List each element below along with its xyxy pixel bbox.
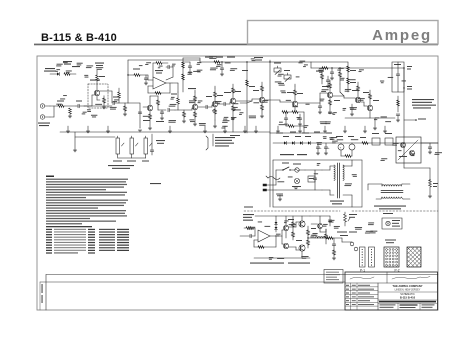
bottom cell text [380, 304, 396, 305]
label [274, 63, 281, 64]
line cord [268, 177, 280, 180]
ground [69, 114, 71, 116]
section divider [244, 210, 340, 212]
capacitor C6 [167, 108, 169, 112]
label [244, 207, 253, 208]
wire [182, 58, 184, 92]
resistor R24 [282, 111, 288, 114]
label [337, 232, 347, 233]
labels tone values [304, 125, 308, 126]
capacitor C11 [330, 71, 334, 73]
label rect row [276, 133, 283, 134]
resistor R49 [321, 74, 324, 79]
wire [118, 88, 120, 92]
ground [160, 117, 164, 119]
wire [305, 169, 322, 171]
labels regulator values [398, 150, 402, 151]
transistor Q16 output [299, 245, 305, 251]
label 5ohm [383, 239, 385, 241]
capacitor C26 [167, 65, 169, 69]
resistor R41 [292, 232, 295, 237]
signature cell divider [386, 272, 388, 283]
wire [254, 228, 256, 236]
diode CR2 [284, 141, 286, 144]
divider [378, 291, 438, 293]
capacitor C1 [77, 104, 79, 108]
bottom cells divider [397, 303, 399, 310]
label [433, 183, 438, 184]
ground [316, 152, 320, 154]
node [246, 61, 247, 62]
box component [372, 138, 380, 145]
wire [265, 99, 280, 101]
wire [240, 235, 250, 237]
wire [289, 226, 296, 228]
transformer T1 primary winding [334, 165, 335, 167]
capacitor C2 [112, 101, 114, 105]
wire [221, 62, 223, 68]
wire [200, 61, 311, 63]
wire [118, 102, 128, 104]
resistor R16 [214, 61, 220, 64]
capacitor C5 [160, 111, 164, 113]
resistor R50 [339, 72, 342, 77]
wire [301, 251, 303, 258]
resistor R33 [369, 94, 372, 99]
resistor R31 [347, 78, 350, 84]
resistor R45 zobel [333, 250, 336, 255]
label [224, 92, 231, 93]
label [399, 156, 407, 157]
wire [198, 106, 206, 108]
ground [73, 149, 77, 151]
wire [275, 222, 277, 232]
box component [385, 138, 393, 145]
labels stage2 top [188, 72, 193, 73]
label notes [412, 99, 434, 100]
resistor R29 [329, 100, 332, 105]
wire [292, 216, 294, 222]
wire [281, 230, 283, 236]
wire loop [392, 62, 404, 92]
label top [63, 61, 72, 62]
ground ticks row [67, 126, 69, 131]
ground [428, 151, 432, 153]
node [269, 61, 270, 62]
strip top rule [46, 274, 438, 276]
wire [310, 62, 312, 68]
node [339, 67, 340, 68]
ground [330, 77, 334, 79]
notes paragraph text [46, 179, 128, 180]
resistor R19 [232, 88, 235, 93]
resistor R39 [258, 246, 264, 249]
wire [285, 216, 287, 225]
label [72, 66, 80, 67]
resistor R9 [155, 92, 161, 95]
wire [148, 79, 153, 81]
wire [127, 60, 129, 103]
label [143, 120, 150, 121]
resistor R44 [327, 237, 333, 240]
wire [191, 108, 193, 110]
winding upper [382, 185, 384, 186]
diagonal [398, 140, 418, 160]
label [394, 64, 401, 65]
capacitor C28 [298, 117, 302, 119]
capacitor C12 [318, 105, 322, 107]
capacitor C4 [138, 111, 142, 113]
label controls note [108, 165, 134, 166]
wire [267, 184, 277, 186]
wire [194, 90, 196, 92]
ground [213, 125, 217, 127]
resistor R12 [177, 98, 180, 104]
labels rectifier values [331, 137, 337, 138]
plug prong [263, 184, 267, 186]
op-amp U1 [153, 77, 166, 89]
labels driver lower values [343, 108, 347, 109]
wire [269, 60, 271, 133]
wire [322, 189, 330, 191]
wire [64, 105, 76, 107]
strip second rule [40, 281, 345, 283]
resistor R42 emitter [307, 230, 310, 235]
label [150, 183, 161, 184]
wire [211, 105, 213, 107]
wire [183, 57, 200, 59]
wire [214, 120, 216, 126]
transistor Q17 [318, 224, 323, 229]
transistor Q12 [410, 151, 415, 156]
resistor R27 [322, 67, 328, 70]
wire [70, 73, 76, 75]
signature row divider [345, 282, 438, 284]
wire [50, 105, 58, 107]
resistor R51 [288, 125, 294, 128]
wire [150, 95, 158, 97]
ground [148, 127, 152, 129]
wire [84, 105, 92, 107]
label INPUT [38, 123, 50, 124]
label [372, 133, 379, 134]
wire [177, 92, 179, 98]
wire [322, 169, 330, 171]
wire bottom rail [60, 131, 270, 133]
resistor R14 [194, 96, 197, 101]
pot VR4 [130, 138, 134, 154]
wire [139, 103, 141, 128]
resistor R43 emitter [307, 240, 310, 245]
label C1 [76, 101, 82, 102]
svg-text:B-115 & B-410: B-115 & B-410 [41, 32, 117, 44]
parts list rows [46, 229, 52, 230]
signature squiggle [392, 277, 430, 280]
label PA parts [288, 219, 294, 220]
label [292, 186, 301, 187]
resistor R48 [156, 62, 162, 65]
wire [183, 61, 190, 63]
wire [343, 194, 352, 196]
capacitor C21 [428, 146, 432, 148]
strip left box [45, 275, 47, 311]
capacitor C27 [326, 79, 330, 81]
resistor R30 [347, 66, 350, 72]
label input [243, 214, 254, 215]
transistor Q9 [355, 97, 360, 102]
svg-text:LINDEN, NEW JERSEY: LINDEN, NEW JERSEY [395, 288, 421, 291]
wire [100, 90, 112, 92]
wire rail bottom [254, 257, 310, 259]
ground [102, 106, 106, 108]
divider [378, 299, 438, 301]
transistor Q14 driver [283, 243, 288, 248]
label [242, 70, 248, 71]
wire [276, 169, 283, 171]
labels bias values [370, 231, 377, 232]
jack J1 [40, 104, 44, 108]
label text [254, 57, 263, 58]
label [188, 88, 196, 89]
revision table entries [346, 285, 349, 286]
parts list header [46, 226, 92, 227]
title block outer [345, 272, 438, 310]
resistor R35 [345, 155, 351, 158]
node [403, 67, 404, 68]
switch SW1 [283, 167, 289, 170]
label [133, 69, 140, 70]
plug prong [263, 189, 267, 191]
pilot lamp [294, 178, 299, 183]
resistor R7 [124, 106, 127, 111]
diode CR3 [292, 141, 294, 144]
notes header [46, 176, 54, 178]
capacitor C15 [396, 113, 400, 115]
diode CR6 [275, 222, 278, 224]
transistor Q5 [230, 98, 235, 103]
fuse F1 [295, 168, 299, 172]
resistor R23 [261, 105, 264, 110]
node output [307, 237, 308, 238]
shield box stage 1 [88, 84, 108, 108]
pot VR5 [144, 138, 148, 154]
resistor R3 [69, 108, 72, 114]
ground [144, 82, 148, 84]
wire [285, 231, 287, 238]
capacitor C25 [188, 65, 192, 67]
Ampeg logo box [248, 21, 439, 45]
ground [220, 73, 224, 75]
capacitor C13 [350, 107, 354, 109]
transistor Q10 [367, 105, 372, 110]
bias trimmer VR6 [344, 214, 347, 222]
resistor R52 [325, 234, 328, 239]
wire [311, 223, 318, 225]
speaker fuse loop [382, 218, 402, 229]
ground [298, 123, 302, 125]
capacitor C8 [205, 105, 207, 109]
label T1 [330, 201, 344, 202]
label [206, 96, 212, 97]
wire [286, 125, 288, 127]
wire [275, 216, 277, 222]
transistor Q13 driver [283, 225, 288, 230]
ground [328, 111, 332, 113]
capacitor C22 [313, 177, 317, 179]
signal path wire [84, 105, 112, 107]
core lines [381, 190, 403, 192]
form number vertical [42, 284, 43, 293]
divider [378, 302, 438, 304]
wire [199, 60, 201, 62]
wire [218, 103, 224, 105]
transformer core [337, 163, 339, 198]
revision table rows [345, 286, 378, 288]
section divider [352, 210, 438, 212]
wire [402, 183, 410, 185]
wire rail [273, 142, 438, 144]
resistor R40 [292, 222, 295, 227]
capacitor C17 electrolytic [316, 146, 320, 148]
wire [298, 102, 320, 104]
label VOLUME [113, 161, 122, 162]
resistor R32 [357, 86, 360, 91]
wire [289, 246, 296, 248]
regulator box [396, 137, 421, 163]
resistor R38 [246, 227, 252, 230]
resistor R36 [362, 142, 368, 145]
resistor R47 [182, 74, 185, 80]
label BASS [142, 161, 149, 162]
ground [396, 119, 400, 121]
wire rail [310, 215, 330, 217]
transistor Q1 [94, 90, 99, 95]
capacitor C10 [284, 117, 288, 119]
ground [188, 71, 192, 73]
capacitor C18 electrolytic [324, 146, 328, 148]
label [95, 63, 104, 64]
mains enclosure [273, 159, 362, 161]
wire [397, 96, 399, 112]
op-amp U2 [258, 230, 270, 242]
pot VR3 [116, 138, 120, 154]
ground [182, 120, 186, 122]
wire [143, 106, 147, 108]
label [171, 94, 177, 95]
wire [96, 70, 98, 75]
label rail [205, 57, 213, 58]
ground [284, 123, 288, 125]
ground [260, 115, 264, 117]
lamp I1 [386, 221, 390, 225]
wire [172, 82, 178, 84]
revision table right edge [377, 283, 379, 310]
resistor R20 [232, 106, 235, 111]
transformer T1 secondary winding [343, 165, 344, 167]
capacitor C7 [220, 67, 224, 69]
resistor R6 [118, 92, 121, 98]
speaker grid B-410 [384, 247, 399, 267]
capacitor C3 [144, 77, 148, 79]
label [418, 119, 426, 120]
diode CR1 [57, 72, 59, 75]
node [221, 61, 222, 62]
label stage1 [90, 80, 100, 81]
label [253, 90, 259, 91]
wire [270, 132, 330, 134]
capacitor C14 [396, 73, 400, 75]
wire [96, 96, 98, 100]
transistor Q4 [212, 101, 217, 106]
wire [128, 74, 134, 76]
label [383, 213, 393, 214]
resistor R1 [64, 73, 70, 76]
label SPKR note [385, 240, 396, 241]
transistor Q11 [401, 143, 406, 148]
wire [118, 157, 146, 159]
capacitor C29 [328, 219, 332, 221]
resistor R10 [149, 114, 152, 119]
wire [333, 95, 344, 97]
wire rail [311, 67, 404, 69]
wire [117, 154, 119, 158]
label TREBLE [127, 161, 136, 162]
label transformer note [374, 206, 406, 207]
ground [231, 117, 235, 119]
wire [246, 62, 248, 133]
labels power amp values [276, 234, 281, 235]
label R2 [57, 101, 64, 102]
label POWER SUPPLY [280, 154, 294, 155]
connector strip [360, 247, 366, 267]
wire [269, 133, 271, 207]
wire [339, 84, 341, 92]
wire [50, 116, 54, 118]
labels input stage values [91, 115, 97, 116]
wire [214, 86, 216, 88]
resistor R26 [294, 90, 297, 95]
label board [250, 263, 284, 264]
feedback [254, 239, 258, 241]
label [287, 92, 294, 93]
resistor R13 [183, 112, 186, 117]
can capacitor C19 [338, 144, 344, 150]
legend box [324, 270, 343, 284]
label +V [316, 71, 324, 72]
resistor R21 [246, 80, 249, 86]
capacitor C16 [150, 149, 154, 151]
label [113, 97, 119, 98]
zobel C24 [332, 243, 336, 245]
label [392, 220, 400, 221]
ground [278, 198, 282, 200]
wire [404, 167, 430, 169]
label aux channel [45, 68, 55, 69]
svg-text:Ampeg: Ampeg [372, 27, 432, 44]
label [283, 136, 289, 137]
resistor R15 [194, 112, 197, 117]
transistor Q15 output [299, 221, 305, 227]
wire [75, 136, 115, 138]
resistor R8 [134, 74, 140, 77]
wire [74, 132, 76, 150]
label SPKR [340, 235, 348, 236]
wire [175, 109, 192, 111]
ground [428, 195, 432, 197]
wire [229, 102, 231, 104]
wire [151, 134, 153, 150]
ground [350, 113, 354, 115]
